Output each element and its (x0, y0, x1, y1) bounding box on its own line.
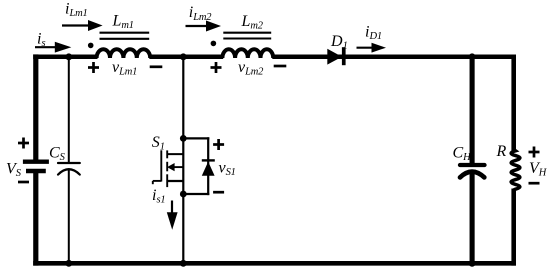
current arrow iLm2 shaft (186, 25, 208, 27)
diode D1 triangle (327, 49, 342, 65)
wire: body-diode branch vertical (207, 137, 209, 195)
inductor Lm2 core bar upper (223, 32, 271, 34)
transistor S1: body arrow head (167, 163, 175, 171)
node: junction dot CH top (469, 53, 476, 60)
current arrow iLm2 head (206, 21, 221, 32)
diode D1 cathode bar (342, 47, 346, 65)
wire: top rail segment from left corner to Lm1 coil (33, 55, 97, 60)
current arrow is1 shaft (171, 201, 173, 214)
wire: CH branch upper (470, 55, 475, 165)
node: junction dot S1 top rail (180, 53, 187, 60)
transistor S1: body arrow shaft (174, 166, 183, 168)
current arrow is shaft (35, 46, 57, 48)
minus sign of vLm2 (274, 65, 287, 68)
plus sign of vLm1 (88, 62, 99, 73)
wire: CH branch lower (470, 171, 475, 266)
current arrow iLm1 shaft (62, 24, 90, 26)
wire: right vertical lower (below resistor R) (511, 189, 516, 266)
transistor S1: gate lead vertical (152, 181, 154, 184)
transistor S1: source stub (167, 180, 184, 182)
minus sign of VH (529, 182, 540, 185)
minus sign of vLm1 (150, 65, 163, 68)
node: junction dot CH bottom (469, 260, 476, 267)
inductor Lm1 coil (97, 49, 151, 58)
wire: body-diode branch top horizontal (183, 137, 209, 139)
node: junction dot CS top (65, 53, 72, 60)
node: junction dot CS bottom (65, 260, 72, 267)
transistor S1: channel segment drain (166, 150, 168, 158)
current arrow iD1 shaft (357, 47, 374, 49)
body diode of S1: triangle (202, 162, 215, 176)
plus sign of vS1 (213, 139, 224, 150)
current arrow is1 head (167, 212, 178, 229)
wire: right vertical upper (above resistor R) (511, 55, 516, 152)
capacitor CS curved plate (58, 169, 80, 174)
current arrow iLm1 head (88, 20, 103, 31)
wire: CS branch upper (68, 55, 70, 163)
node: junction dot S1 drain (180, 135, 187, 142)
inductor Lm1 core bar lower (100, 38, 150, 40)
inductor Lm2 core bar lower (223, 37, 271, 39)
plus sign of Vs (18, 138, 29, 149)
polarity dot Lm2 (211, 41, 217, 47)
node: junction dot S1 source (180, 191, 187, 198)
wire: top rail segment from Lm2 coil to right corner (through diode D1) (272, 55, 516, 60)
wire: top rail segment between Lm1 and Lm2 coils (149, 55, 223, 60)
current arrow is head (55, 42, 72, 53)
wire: left vertical (lower, below battery Vs) (33, 171, 38, 266)
minus sign of vS1 (213, 191, 224, 194)
node: junction dot S1 bottom (180, 260, 187, 267)
transistor S1: channel segment body (166, 162, 168, 172)
inductor Lm2 coil (222, 49, 273, 58)
svg-text:R: R (496, 143, 507, 160)
transistor S1: channel segment source (166, 174, 168, 187)
wire: body-diode branch bottom horizontal (183, 193, 209, 195)
capacitor CH top plate (460, 163, 485, 167)
resistor R squiggle (511, 150, 520, 191)
body diode of S1: cathode bar (202, 159, 215, 161)
plus sign of VH (529, 147, 540, 158)
battery Vs short plate (26, 169, 46, 173)
transistor S1: drain stub (167, 153, 184, 155)
plus sign of vLm2 (211, 62, 222, 73)
capacitor CS top plate (58, 162, 80, 164)
battery Vs long plate (23, 159, 49, 163)
polarity dot Lm1 (88, 43, 94, 49)
wire: CS branch lower (68, 170, 70, 265)
wire: left vertical (upper, above battery Vs) (33, 54, 38, 162)
wire: bottom rail (33, 261, 516, 266)
wire: S1 branch vertical (top rail to bottom rail) (182, 55, 184, 264)
inductor Lm1 core bar upper (100, 32, 150, 34)
current arrow iD1 head (372, 43, 387, 53)
transistor S1: gate lead horizontal (153, 180, 162, 182)
capacitor CH curved plate (460, 172, 484, 178)
minus sign of Vs (18, 181, 29, 184)
transistor Q S1: gate bar (160, 150, 162, 181)
